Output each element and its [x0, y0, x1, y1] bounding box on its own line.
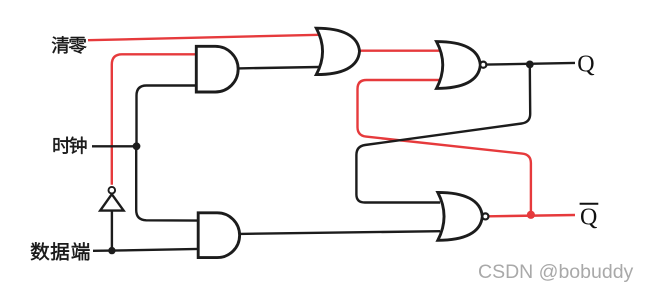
NOR gate U3 output bubble [480, 62, 486, 68]
wire: clock node up to AND U1 bottom input [137, 86, 198, 147]
NOR gate U4 output bubble [482, 213, 488, 219]
wire: AND U1 output to OR U2 bottom input [238, 67, 319, 68]
wire: inverter output up to AND U1 top input (red) [112, 54, 197, 185]
node B (Q-bar) junction dot (red) [527, 211, 535, 219]
svg-text:Q: Q [577, 52, 594, 78]
wire: Q-bar feedback from node B up-left to NOR U3 bottom input (red) [358, 80, 531, 215]
svg-text:CSDN @bobuddy: CSDN @bobuddy [478, 261, 634, 283]
wire: OR U2 output to NOR U3 top input (red) [357, 50, 442, 52]
wire: 清零 (clear) line to OR gate U2 top input [88, 35, 319, 40]
wire: 数据端 (data) line to AND U5 bottom input [93, 249, 199, 251]
wire: NOR U3 output to Q [486, 63, 575, 65]
label 数据端 (data input) [31, 242, 49, 260]
wire: data node up to inverter input [111, 211, 113, 251]
label 清零 (clear input) [52, 36, 69, 53]
node A (Q) junction dot [526, 61, 534, 69]
node CLK junction dot [133, 142, 141, 150]
wire: Q feedback from node A down-left to NOR U4 top input [356, 64, 530, 202]
NOR gate U4 (bottom latch gate) [438, 192, 483, 240]
wire: NOR U4 output to Q-bar (red) [488, 215, 575, 216]
label 时钟 (clock input) [54, 137, 71, 154]
wire: 时钟 (clock) label to node CLK [92, 145, 137, 147]
wire: AND U5 output to NOR U4 bottom input [240, 231, 441, 234]
inverter U6 output bubble [109, 187, 116, 194]
OR gate U2 [316, 28, 359, 74]
svg-text:Q: Q [580, 205, 597, 231]
NOR gate U3 (top latch gate) [437, 42, 481, 89]
AND gate U5 (bottom, clock + data) [198, 213, 239, 258]
Q-bar overline [580, 203, 599, 205]
wire: clock node down to AND U5 top input [136, 146, 199, 220]
node D junction dot [108, 247, 115, 254]
AND gate U1 (top, clock + inverted data) [196, 46, 238, 92]
inverter U6 triangle (data inverter, points up) [100, 194, 123, 210]
